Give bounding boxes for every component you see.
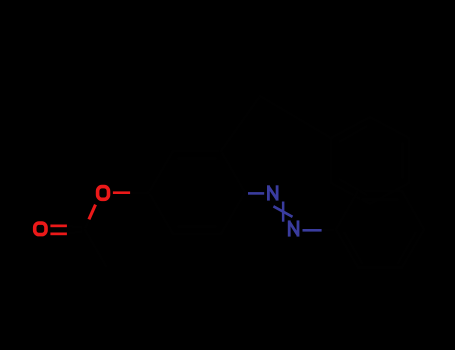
ring to N1 bond (blue half) — [248, 192, 264, 195]
upper-right benzene ring — [331, 117, 409, 204]
C=O double bond lower red half — [50, 233, 67, 236]
inner double bond top — [178, 157, 216, 160]
C=O double bond upper red half — [50, 225, 67, 228]
black half of ester O - carbonyl C diagonal — [85, 219, 89, 229]
N2 letter — [288, 220, 300, 236]
near-invisible carbon skeleton (very dark gray, as in reference) — [67, 96, 424, 268]
lower ring inner double bonds — [362, 198, 398, 201]
central benzene ring — [149, 151, 245, 234]
N1 letter — [267, 185, 279, 200]
blue azo group — [248, 185, 322, 236]
black half of N-phenyl bond — [322, 228, 336, 232]
O to ring bond (red half) — [113, 191, 130, 194]
red acetate group — [35, 187, 130, 236]
ester O letter — [98, 187, 109, 200]
carbonyl O letter — [35, 223, 46, 235]
azo N=N shallow line — [273, 206, 292, 217]
top-right zig-zag — [221, 96, 260, 151]
O to carbonyl C diagonal (red half) — [89, 205, 96, 220]
lower-right benzene ring — [336, 191, 424, 268]
black half of O-ring bond — [131, 191, 150, 194]
N2 to phenyl bond (blue half) — [303, 229, 322, 232]
methyl bond — [85, 230, 106, 266]
upper ring inner double bonds — [340, 127, 366, 142]
azo N=N vertical line — [282, 202, 285, 222]
black halves of C=O double bond — [67, 226, 82, 228]
inner double bond bottom — [178, 225, 216, 228]
